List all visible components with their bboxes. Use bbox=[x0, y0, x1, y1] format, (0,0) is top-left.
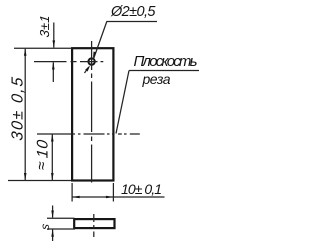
svg-text:30± 0,5: 30± 0,5 bbox=[9, 76, 27, 141]
svg-text:3±1: 3±1 bbox=[37, 15, 52, 39]
svg-text:реза: реза bbox=[142, 71, 171, 87]
svg-text:≈: ≈ bbox=[33, 160, 50, 171]
svg-text:10: 10 bbox=[35, 139, 52, 159]
svg-text:Ø2±0,5: Ø2±0,5 bbox=[110, 4, 156, 20]
svg-text:Плоскость: Плоскость bbox=[134, 53, 198, 70]
svg-text:s: s bbox=[38, 223, 52, 230]
svg-text:10± 0,1: 10± 0,1 bbox=[121, 181, 162, 197]
